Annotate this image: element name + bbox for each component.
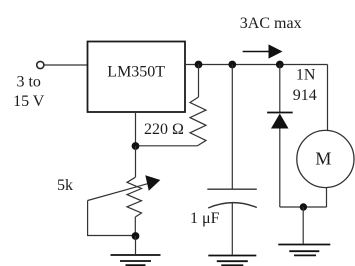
wire D1 anode down — [279, 129, 281, 208]
wire R2 bottom — [134, 217, 136, 236]
svg-text:3AC max: 3AC max — [240, 15, 302, 32]
wire bottom link D1 to motor — [280, 206, 327, 208]
wire rail to C1 — [231, 65, 233, 190]
node F (bottom junction) — [300, 203, 307, 210]
svg-text:LM350T: LM350T — [107, 64, 165, 81]
wire output rail — [185, 64, 328, 66]
node C (rail/D1) — [276, 61, 284, 69]
ground G3 — [278, 245, 330, 256]
capacitor C1 1uF — [207, 189, 256, 208]
wire node D to R2 — [135, 146, 137, 177]
regulator U1 LM350T — [88, 42, 186, 113]
svg-text:1N: 1N — [296, 67, 316, 84]
ground G2 — [208, 256, 256, 266]
wire node F to ground — [302, 207, 304, 244]
wire rail to R1 — [198, 65, 200, 98]
svg-text:220 Ω: 220 Ω — [144, 121, 184, 138]
node B (rail/C1) — [228, 61, 236, 69]
wire input to regulator — [44, 64, 87, 66]
wire rail to D1 cathode — [279, 65, 281, 113]
svg-text:914: 914 — [293, 87, 317, 104]
node D (ADJ junction) — [132, 142, 140, 150]
svg-text:15 V: 15 V — [13, 93, 45, 110]
ground G1 — [111, 255, 161, 265]
svg-text:3 to: 3 to — [16, 74, 40, 91]
current arrow — [243, 44, 283, 58]
resistor R1 220 ohm — [190, 97, 206, 146]
svg-text:1 μF: 1 μF — [190, 210, 220, 227]
svg-text:M: M — [315, 149, 331, 169]
diode D1 1N914 — [267, 113, 293, 129]
node E (R2 bottom junction) — [132, 232, 140, 240]
node A (rail/R1) — [195, 61, 203, 69]
wire R1 bottom to ADJ node — [136, 145, 198, 147]
wire motor bottom — [326, 187, 328, 207]
wire C1 to ground — [231, 203, 233, 255]
motor M1 — [297, 130, 354, 187]
wire wiper to bottom terminal — [88, 201, 136, 236]
input terminal — [37, 61, 44, 68]
wire rail corner to motor — [327, 65, 329, 132]
R2 wiper arrow — [88, 175, 161, 200]
wire node E to ground — [135, 236, 137, 254]
wire regulator ADJ pin down — [135, 112, 137, 146]
svg-text:5k: 5k — [57, 177, 73, 194]
potentiometer R2 5k element — [127, 177, 142, 217]
